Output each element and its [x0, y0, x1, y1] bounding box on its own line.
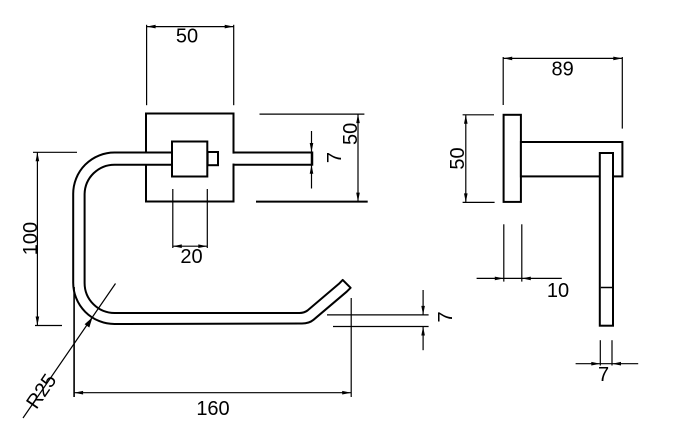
svg-text:7: 7: [324, 152, 346, 163]
svg-text:20: 20: [180, 246, 202, 268]
dimension 50 (left, side view): [447, 115, 495, 203]
svg-text:7: 7: [598, 364, 609, 386]
dimension 100 (left, front view): [20, 152, 77, 325]
dimension 7 (hanging bar thickness, side view): [576, 340, 639, 386]
svg-text:89: 89: [551, 58, 573, 80]
bracket arm (side view): [521, 142, 623, 176]
dimension 50 (right vertical, front view): [256, 114, 368, 202]
svg-text:10: 10: [547, 280, 569, 302]
dimension 7 (bottom bar thickness, front view): [327, 290, 457, 350]
dimension 7 (roll bar end, front view): [310, 131, 346, 189]
dimension 50 (top, front view): [147, 25, 234, 105]
svg-text:50: 50: [447, 147, 469, 169]
dimension 160 (bottom, front view): [74, 287, 351, 420]
hook bar (front view): [73, 153, 350, 325]
dimension 89 (top, side view): [503, 57, 622, 129]
svg-text:160: 160: [196, 398, 229, 420]
mounting bracket square (front view): [172, 142, 207, 177]
wall plate (front view): [146, 114, 234, 202]
svg-text:100: 100: [20, 222, 42, 255]
dimension 10 (plate thickness, side view): [477, 224, 570, 301]
radius leader R25 (front view): [22, 284, 115, 419]
svg-text:50: 50: [340, 123, 362, 145]
hanging bar (side view): [600, 153, 613, 326]
bracket tab (front view): [208, 152, 218, 165]
roll bar right segment (front view): [233, 152, 313, 166]
dimension 20 (below plate, front view): [173, 189, 208, 268]
svg-text:7: 7: [435, 311, 457, 322]
svg-text:50: 50: [176, 25, 198, 47]
wall plate (side view): [504, 115, 521, 202]
